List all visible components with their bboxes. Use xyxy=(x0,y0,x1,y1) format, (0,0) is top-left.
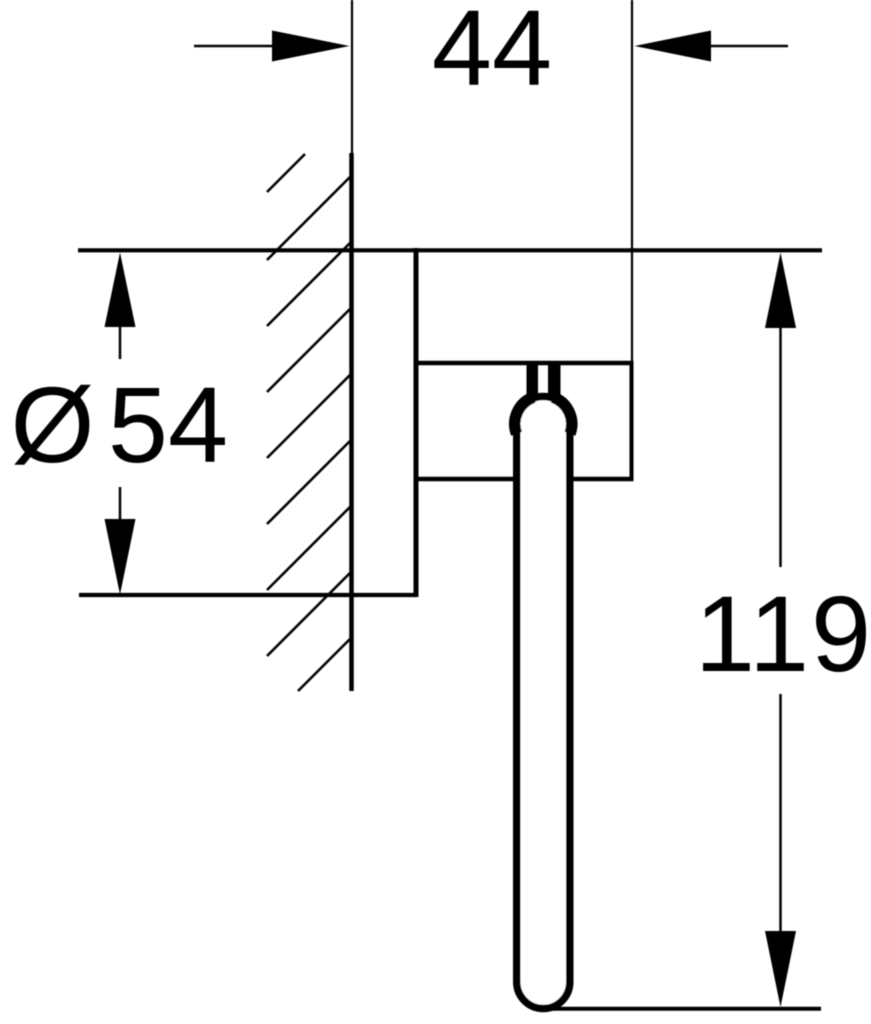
dim 44 left arrow tail xyxy=(194,45,280,48)
dim 54 down arrowhead xyxy=(105,519,136,595)
wall face line xyxy=(349,153,354,691)
dim 119 up arrowhead xyxy=(765,253,796,329)
top horizontal line (plate top / extension for dims) xyxy=(78,248,822,252)
svg-text:Ø: Ø xyxy=(10,364,94,485)
holder arm top edge xyxy=(414,361,634,366)
dim 44 right arrow tail xyxy=(710,45,788,48)
dim 44 right arrowhead xyxy=(635,31,712,62)
dim 119 line lower segment xyxy=(779,694,782,933)
ring hook right thick arc xyxy=(553,397,572,434)
ring hook left thick arc xyxy=(515,397,534,434)
dim 54 up arrow tail xyxy=(119,326,122,359)
pivot stem right bar xyxy=(548,363,561,401)
mounting plate right edge xyxy=(414,248,419,597)
dim 119 down arrowhead xyxy=(765,931,796,1007)
dim 54 down arrow tail xyxy=(119,487,122,521)
dim 119 bottom reference line xyxy=(543,1007,821,1011)
extension line left (wall face, dim 44) xyxy=(351,0,353,155)
dim 44 left arrowhead xyxy=(272,31,350,62)
plate bottom line (extension for dim 54) xyxy=(79,593,417,597)
svg-text:44: 44 xyxy=(432,0,552,108)
paper ring (capsule outline, white interior) xyxy=(517,397,570,1009)
svg-text:54: 54 xyxy=(108,364,228,485)
dim 119 line upper segment xyxy=(779,326,782,567)
wall hatching xyxy=(267,154,352,691)
dim 54 up arrowhead xyxy=(105,253,136,328)
pivot stem left bar xyxy=(527,363,539,401)
holder arm bottom edge xyxy=(414,477,634,482)
svg-text:119: 119 xyxy=(695,573,871,694)
extension line right (dim 44) xyxy=(631,0,633,362)
holder arm right edge xyxy=(630,361,634,481)
